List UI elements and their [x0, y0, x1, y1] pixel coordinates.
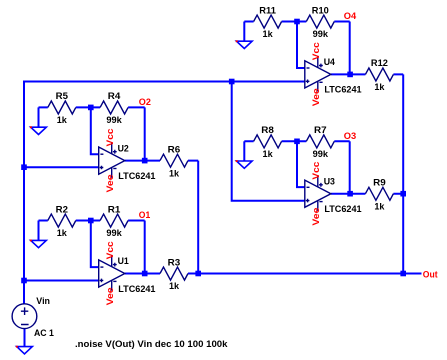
- op-amp U2 LTC6241: [99, 142, 125, 178]
- node left bus / U2 +: [21, 164, 27, 170]
- wire left bus to U2 + input: [24, 166, 99, 168]
- wire feedback junction to U2 - input: [91, 107, 99, 154]
- resistor R10: [297, 15, 350, 28]
- wire left bus top segment: [24, 82, 232, 168]
- ground (R5): [30, 126, 46, 134]
- svg-text:99k: 99k: [313, 29, 329, 39]
- node U2 output / O2: [142, 158, 148, 164]
- svg-text:R1: R1: [108, 204, 121, 214]
- wire R2 ground stub: [38, 221, 40, 241]
- node R9 / right bus: [400, 191, 406, 197]
- resistor R4: [91, 101, 145, 114]
- wire out row: [198, 273, 403, 275]
- svg-text:R4: R4: [108, 91, 121, 101]
- op-amp U3 LTC6241: [305, 175, 331, 211]
- svg-text:1k: 1k: [57, 115, 68, 125]
- ground (R2): [30, 240, 46, 248]
- svg-text:Vee: Vee: [105, 175, 115, 193]
- wire left bus to U1 + input: [24, 280, 99, 282]
- op-amp U4 LTC6241: [305, 56, 331, 92]
- svg-text:U2: U2: [118, 143, 129, 153]
- op-amp U1 LTC6241: [99, 255, 125, 291]
- wire left bus to Vin: [23, 281, 25, 305]
- voltage source Vin (AC 1): [12, 304, 37, 329]
- svg-text:1k: 1k: [374, 201, 385, 211]
- svg-text:O1: O1: [139, 210, 150, 220]
- wire feedback junction to U1 - input: [91, 221, 99, 268]
- svg-text:Vin: Vin: [36, 296, 50, 306]
- svg-text:R3: R3: [168, 257, 181, 267]
- resistor R1: [91, 214, 145, 227]
- wire right bus R12 down to R9: [402, 74, 404, 193]
- node left bus / U1 +: [21, 278, 27, 284]
- ground (Vin): [16, 346, 32, 354]
- wire R5 ground stub: [38, 107, 40, 127]
- node R3 / mid bus / out row: [195, 271, 201, 277]
- wire right bus R9 down to out row: [402, 194, 404, 274]
- svg-text:Vcc: Vcc: [105, 129, 115, 147]
- wire U4 output: [331, 73, 350, 75]
- wire out stub to label: [403, 273, 421, 275]
- wire mid drop to U3 + input: [232, 82, 305, 201]
- wire O3 drop to U3 output: [349, 141, 351, 193]
- node R2/R1/U1 junction: [88, 218, 94, 224]
- svg-text:R8: R8: [261, 125, 274, 135]
- svg-text:99k: 99k: [313, 149, 329, 159]
- node U3 output / O3: [347, 191, 353, 197]
- svg-text:O4: O4: [344, 11, 357, 21]
- resistor R9: [350, 187, 403, 200]
- svg-text:R5: R5: [56, 91, 68, 101]
- wire U2 output: [125, 160, 145, 162]
- node R5/R4/U2 junction: [88, 105, 94, 111]
- wire R11 ground stub: [243, 22, 245, 42]
- svg-text:R12: R12: [371, 58, 388, 68]
- resistor R3: [145, 267, 199, 280]
- svg-text:.noise V(Out) Vin dec 10 100 1: .noise V(Out) Vin dec 10 100 100k: [75, 339, 228, 349]
- svg-text:Vee: Vee: [105, 287, 115, 305]
- ground (R11): [236, 40, 252, 48]
- node Out: [400, 271, 406, 277]
- ground (R8): [236, 160, 252, 168]
- node U1 output / O1: [142, 271, 148, 277]
- svg-text:1k: 1k: [169, 168, 180, 178]
- node U4 output / O4: [347, 72, 353, 78]
- svg-text:LTC6241: LTC6241: [324, 204, 361, 214]
- wire left bus middle segment: [23, 167, 25, 280]
- resistor R8: [244, 135, 297, 148]
- resistor R12: [350, 68, 403, 81]
- svg-text:R10: R10: [312, 5, 329, 15]
- svg-text:Vcc: Vcc: [105, 241, 115, 259]
- svg-text:AC 1: AC 1: [34, 328, 54, 338]
- svg-text:Vee: Vee: [311, 88, 321, 106]
- svg-text:R7: R7: [314, 125, 327, 135]
- svg-text:R2: R2: [56, 204, 68, 214]
- svg-text:Vcc: Vcc: [311, 162, 321, 180]
- svg-text:Vee: Vee: [311, 208, 321, 226]
- resistor R7: [297, 135, 350, 148]
- svg-text:1k: 1k: [57, 228, 68, 238]
- wire mid bus R6 down to out row: [197, 161, 199, 274]
- node R8/R7/U3 junction: [294, 139, 300, 145]
- wire O2 drop to U2 output: [144, 107, 146, 160]
- svg-text:O3: O3: [344, 131, 356, 141]
- svg-text:1k: 1k: [169, 281, 180, 291]
- svg-text:O2: O2: [139, 97, 151, 107]
- svg-text:Out: Out: [423, 269, 438, 279]
- svg-text:LTC6241: LTC6241: [118, 284, 155, 294]
- wire top bus to U4 + input: [232, 81, 305, 83]
- wire O1 drop to U1 output: [144, 221, 146, 274]
- resistor R5: [39, 101, 91, 114]
- wire feedback junction to U4 - input: [297, 22, 305, 69]
- svg-text:U4: U4: [324, 57, 336, 67]
- wire Vin bottom to ground: [24, 329, 26, 347]
- wire O4 drop to U4 output: [349, 22, 351, 75]
- resistor R2: [39, 214, 91, 227]
- svg-text:99k: 99k: [106, 228, 122, 238]
- node top bus branch: [229, 79, 235, 85]
- svg-text:99k: 99k: [106, 115, 122, 125]
- wire R8 ground stub: [243, 141, 245, 161]
- svg-text:1k: 1k: [374, 82, 385, 92]
- resistor R6: [145, 154, 199, 167]
- svg-text:1k: 1k: [263, 29, 274, 39]
- svg-text:1k: 1k: [263, 149, 274, 159]
- svg-text:R11: R11: [259, 5, 276, 15]
- svg-text:Vcc: Vcc: [311, 42, 321, 60]
- svg-text:R6: R6: [168, 144, 181, 154]
- node R11/R10/U4 junction: [294, 19, 300, 25]
- wire feedback junction to U3 - input: [297, 141, 305, 187]
- wire U1 output: [125, 273, 145, 275]
- svg-text:R9: R9: [373, 178, 386, 188]
- svg-text:U1: U1: [118, 256, 129, 266]
- svg-text:U3: U3: [324, 176, 335, 186]
- wire U3 output: [331, 193, 350, 195]
- svg-text:LTC6241: LTC6241: [118, 171, 155, 181]
- svg-text:LTC6241: LTC6241: [324, 85, 361, 95]
- resistor R11: [244, 15, 297, 28]
